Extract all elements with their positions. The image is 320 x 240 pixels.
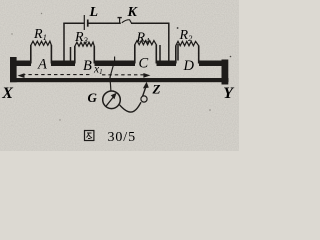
svg-text:B: B [83, 58, 92, 74]
svg-text:X: X [1, 85, 13, 102]
svg-text:30/5: 30/5 [108, 130, 137, 145]
svg-text:A: A [37, 57, 47, 73]
svg-text:Y: Y [223, 85, 234, 102]
svg-text:Z: Z [152, 82, 161, 97]
svg-text:K: K [127, 5, 139, 20]
svg-text:L: L [89, 5, 99, 20]
svg-text:C: C [139, 56, 149, 72]
svg-text:D: D [183, 58, 195, 74]
svg-text:G: G [88, 90, 98, 105]
